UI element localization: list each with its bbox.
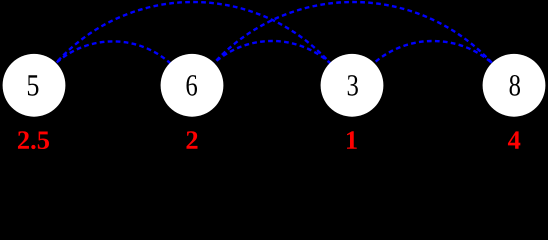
node 6	[161, 54, 224, 117]
label 1	[347, 131, 357, 148]
node 5	[3, 54, 66, 117]
wire edge 6-8	[214, 2, 492, 63]
label 4	[508, 131, 520, 148]
node 8	[483, 54, 546, 117]
node 3	[321, 54, 384, 117]
label 2	[186, 131, 197, 149]
node 3 digit "3"	[348, 75, 358, 96]
node 6 digit "6"	[187, 75, 197, 96]
wire edge 3-8	[374, 41, 492, 63]
wire edge 5-3	[56, 2, 330, 63]
label 2.5	[18, 131, 29, 149]
node 8 digit "8"	[510, 75, 520, 96]
wire edge 6-3	[214, 41, 330, 63]
wire edge 5-6	[56, 41, 170, 63]
node 5 digit "5"	[28, 75, 39, 95]
